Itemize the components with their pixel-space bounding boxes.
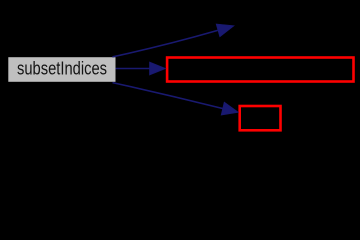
svg-text:subsetIndices: subsetIndices xyxy=(17,59,107,79)
